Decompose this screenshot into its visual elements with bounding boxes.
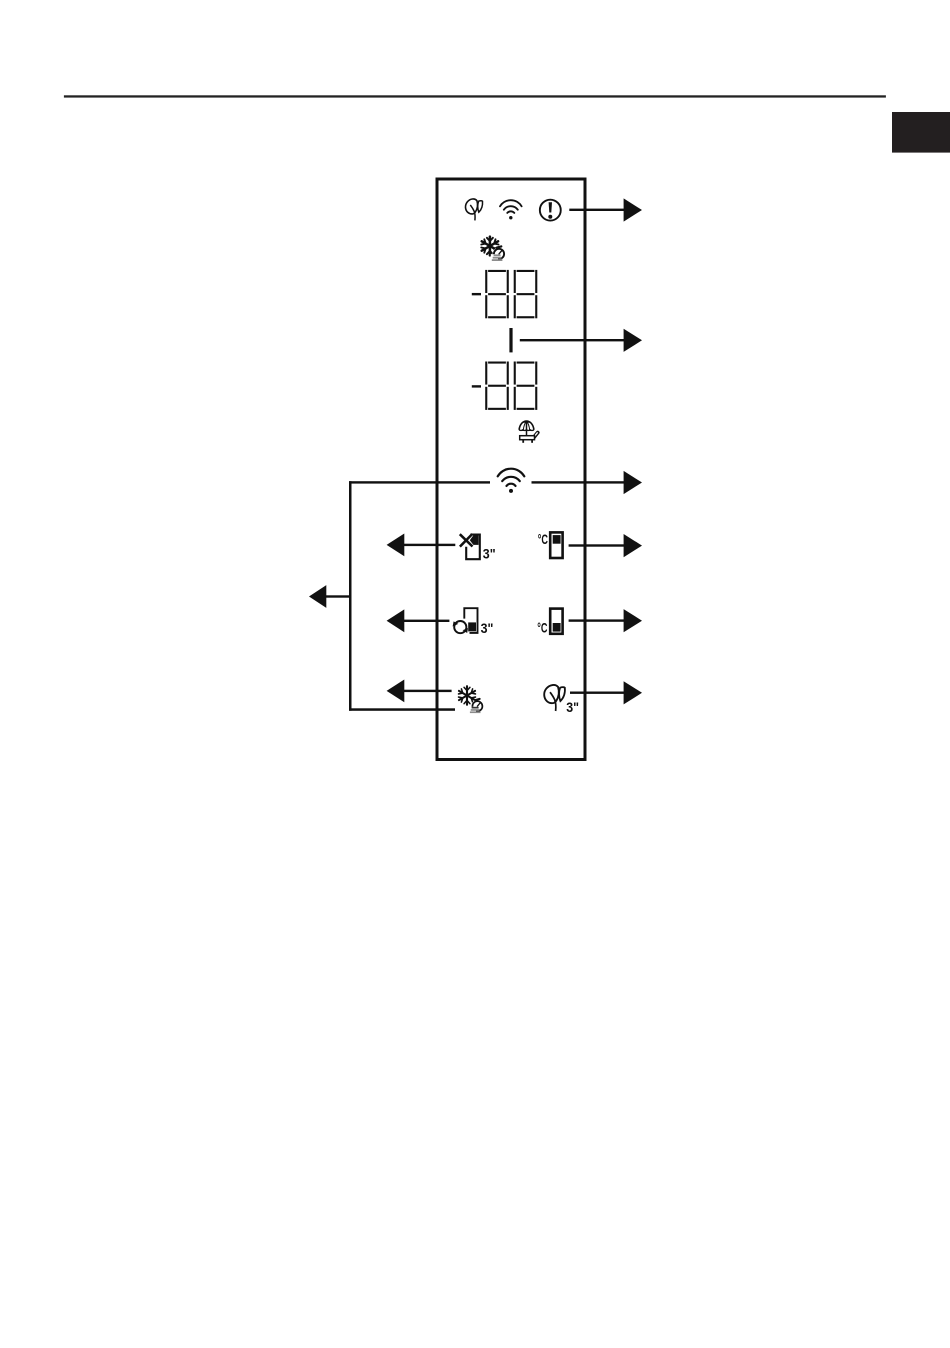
svg-text:3": 3" (566, 699, 579, 715)
display upper digit 1 (8) (485, 270, 509, 318)
arrow callout (button row 1, pointing right) (569, 534, 642, 557)
label 3s (row 2) (481, 620, 494, 636)
display lower digit 1 (8) (485, 362, 509, 410)
icon super-freeze with timer (solid, above display) (481, 237, 504, 261)
label 3s (row 1) (483, 546, 496, 562)
arrow callout (button row 3, pointing left) (387, 680, 452, 703)
wire wifi row left (349, 481, 490, 483)
button eco mode (leaf, 3s) (544, 685, 565, 711)
icon wifi connect (large, mid panel) (498, 469, 525, 493)
display lower digit 2 (8) (514, 362, 538, 410)
arrow callout (button row 1, pointing left) (387, 534, 456, 557)
arrow callout (bracket, pointing left) (309, 585, 351, 608)
label 3s (row 3) (566, 699, 579, 715)
bracket bottom wire (349, 708, 455, 711)
page tab (black index marker) (892, 112, 950, 153)
button fridge temperature (deg C door) (538, 532, 563, 558)
svg-text:°C: °C (537, 621, 547, 636)
button freezer temperature (deg C door) (537, 609, 562, 636)
button super freeze (snowflake + timer) (459, 686, 483, 713)
display lower: minus sign (472, 385, 481, 387)
arrow callout (button row 2, pointing right) (569, 609, 642, 632)
arrow callout (display, pointing right) (520, 329, 642, 352)
icon alarm (exclamation in circle) (540, 200, 561, 221)
arrow callout (alarm row, pointing right) (569, 198, 642, 221)
panel outline (437, 179, 585, 760)
display upper: minus sign (472, 293, 481, 295)
svg-text:°C: °C (538, 532, 548, 547)
display separator bar (509, 328, 512, 352)
arrow callout (wifi row, pointing right) (532, 471, 643, 494)
arrow callout (button row 2, pointing left) (387, 609, 450, 632)
svg-text:3": 3" (481, 620, 494, 636)
arrow callout (button row 3, pointing right) (570, 681, 642, 704)
icon eco leaf (top status) (465, 199, 482, 220)
button swap door / rotate (3s) (453, 608, 478, 633)
icon wifi (top status) (500, 200, 522, 219)
button mute door alarm (X door, 3s) (460, 534, 480, 559)
top rule (64, 95, 886, 97)
display upper digit 2 (8) (514, 270, 538, 318)
bracket vertical wire (349, 481, 352, 711)
icon vacation (umbrella + lounger) (519, 421, 538, 443)
svg-text:3": 3" (483, 546, 496, 562)
